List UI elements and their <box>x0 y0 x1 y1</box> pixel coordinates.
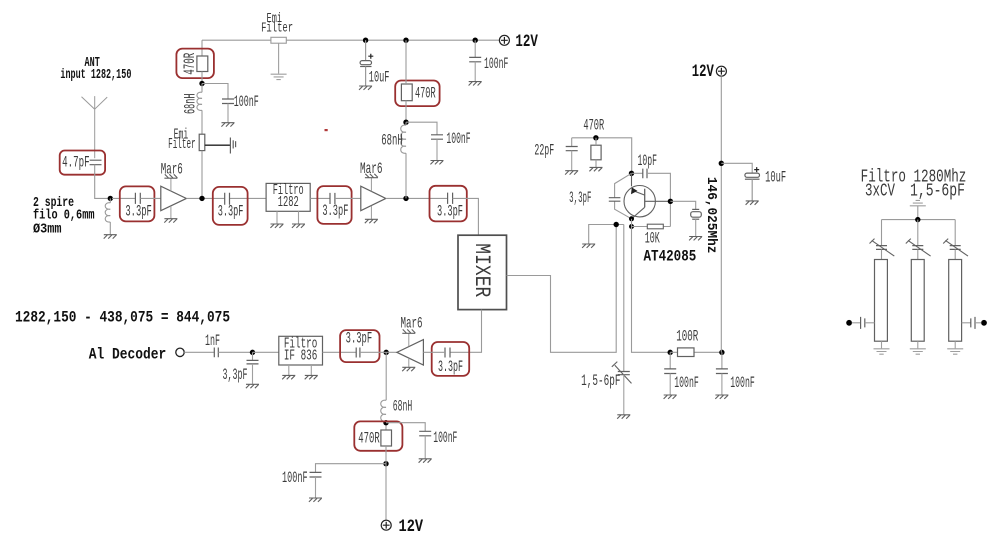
resistor 10K <box>632 224 671 247</box>
svg-text:1,5-6pF: 1,5-6pF <box>910 181 965 201</box>
resistor 100R <box>670 328 722 357</box>
wire: emitter dots link <box>631 219 633 227</box>
svg-text:3xCV: 3xCV <box>865 181 895 201</box>
svg-text:12V: 12V <box>399 517 424 537</box>
capacitor 3,3pF (decoder shunt) <box>247 352 259 384</box>
wire: 470R stems <box>595 138 597 167</box>
svg-text:470R: 470R <box>181 53 199 75</box>
op-amp Mar6 (stage1 MMIC) <box>161 161 187 219</box>
wire: collector to resonator <box>670 201 695 209</box>
ground below 100nF (left column) <box>221 123 234 127</box>
inductor 68nH (decoder bias) <box>381 352 386 430</box>
ground below 3,3pF (decoder) <box>246 384 259 388</box>
svg-text:1282,150 - 438,075 = 844,075: 1282,150 - 438,075 = 844,075 <box>15 308 230 326</box>
node: junction Mar6 decoder / 68nH bias <box>384 350 389 355</box>
wire: Filtro 1282 to 3.3pF <box>310 197 330 199</box>
wire: Filtro IF 836 to 3.3pF <box>323 351 357 353</box>
ground below 100nF (decoder bias upper) <box>419 459 432 463</box>
wire: oscillator top bias rail <box>572 138 632 174</box>
wire: Emi Filter to ground <box>278 43 280 73</box>
node: jumper junction <box>614 222 619 227</box>
op-amp Mar6 (stage2 MMIC) <box>360 160 386 219</box>
svg-text:100R: 100R <box>676 328 698 346</box>
node: antenna input junction <box>108 196 113 201</box>
power terminal 12V (right) <box>716 66 726 76</box>
ground above Mar6 stage2 <box>365 174 378 178</box>
ground below 100nF (decoder bias lower) <box>309 498 322 502</box>
ground below Filtro 1282 (right) <box>292 224 305 228</box>
capacitor 3.3pF (red box, after Mar6 stage2) <box>430 186 467 222</box>
filter Filtro 1282 <box>266 183 310 211</box>
ground below resonator 2 <box>910 349 926 354</box>
node: oscillator bias junction <box>593 135 598 140</box>
node: junction 470R/68nH/100nF (middle) <box>403 120 408 125</box>
svg-text:3,3pF: 3,3pF <box>569 189 591 207</box>
trimmer CV1 (left) <box>870 220 895 260</box>
svg-text:Al Decoder: Al Decoder <box>89 345 167 363</box>
node: rail junction at 100nF <box>473 38 478 43</box>
svg-text:1282: 1282 <box>278 195 299 211</box>
wire: +12V top rail <box>202 39 499 41</box>
node: decoder line junction <box>250 350 255 355</box>
capacitor 100nF (decoder bias upper) <box>386 423 431 459</box>
capacitor 1nF <box>184 348 252 358</box>
ground below Filtro 1282 (left) <box>270 224 283 228</box>
svg-text:100nF: 100nF <box>484 55 508 73</box>
capacitor 100nF (top right decoupling) <box>469 40 481 81</box>
wire: node to 3.3pF <box>112 197 135 199</box>
resistor 470R (left, in red box) <box>176 49 214 79</box>
stray red mark <box>325 129 328 131</box>
capacitor 3.3pF (red box, before Mar6 decoder) <box>340 330 379 362</box>
svg-text:AT42085: AT42085 <box>644 248 697 266</box>
wire: antenna cap to input node <box>95 165 108 199</box>
capacitor 10uF (electrolytic, top rail) <box>360 40 373 85</box>
wire: rail to 470R <box>405 40 407 84</box>
wire: 3.3pF to node to Mar6 apex <box>360 351 397 353</box>
svg-text:Filter: Filter <box>261 21 293 37</box>
resonator 3 (right) <box>949 260 962 342</box>
svg-text:1,5-6pF: 1,5-6pF <box>581 372 620 390</box>
Emi Filter (top, series in 12V rail) <box>261 11 293 43</box>
svg-text:1nF: 1nF <box>205 332 220 350</box>
power terminal 12V (bottom) <box>381 520 391 530</box>
crystal resonator 146,025Mhz <box>691 209 702 236</box>
svg-text:100nF: 100nF <box>674 374 699 392</box>
resistor 470R (red box, decoder bias) <box>354 421 402 450</box>
wire: 3.3pF to MIXER input <box>453 198 479 235</box>
svg-text:12V: 12V <box>692 62 714 82</box>
node: filter bus junction <box>915 217 920 222</box>
svg-text:12V: 12V <box>515 32 538 52</box>
wire: node down to 12V terminal <box>385 464 387 521</box>
svg-text:IF 836: IF 836 <box>284 348 318 364</box>
svg-text:MIXER: MIXER <box>469 243 494 297</box>
node: rail junction at 10uF <box>363 38 368 43</box>
wire: Filtro IF 836 ground stems <box>289 365 312 375</box>
svg-text:100nF: 100nF <box>234 93 259 111</box>
capacitor coupling (filter right) <box>962 317 982 329</box>
power terminal +12V (top) <box>499 35 509 45</box>
wire: MIXER RF out to oscillator node <box>507 225 617 353</box>
wire: 3.3pF to Mar6 <box>140 197 161 199</box>
svg-text:3.3pF: 3.3pF <box>218 203 244 221</box>
svg-text:10uF: 10uF <box>765 168 786 186</box>
node: emitter junction lower <box>629 224 634 229</box>
inductor 68nH (middle) <box>401 122 406 198</box>
wire: 470R to node <box>405 101 407 123</box>
ground (earth) below Emi Filter <box>271 74 287 79</box>
ground above Mar6 stage1 <box>164 174 177 178</box>
svg-text:470R: 470R <box>358 430 380 448</box>
capacitor 22pF <box>566 138 578 171</box>
feed-through capacitor at Emi Filter <box>205 138 236 154</box>
transistor Q1 AT42085 <box>624 173 670 219</box>
node: junction Mar6 out / bias column <box>199 196 204 201</box>
wire: base-emitter feedback path (hexagon left) <box>615 173 632 219</box>
trimmer CV3 (right) <box>943 220 968 260</box>
ground below Mar6 decoder <box>402 367 415 371</box>
wire: collector column <box>669 199 671 227</box>
ground below 2 spire coil <box>104 235 117 239</box>
ground above Mar6 decoder <box>402 329 415 333</box>
ground below Filtro IF 836 (left) <box>282 375 295 379</box>
svg-text:68nH: 68nH <box>393 397 413 415</box>
ground below resonator 1 <box>874 349 890 354</box>
node: rail junction at 470R <box>403 38 408 43</box>
wire: 470R to node <box>385 446 387 464</box>
svg-text:68nH: 68nH <box>181 94 199 115</box>
inductor 68nH (left column) <box>197 84 202 135</box>
wire: 202 column from rail to 470R <box>201 40 203 56</box>
svg-text:input 1282,150: input 1282,150 <box>60 67 131 83</box>
ground below resonator <box>689 237 702 241</box>
wire: 12V right column <box>720 76 722 352</box>
node: transistor base junction <box>629 171 634 176</box>
wire: emitter ground jumper <box>589 225 624 244</box>
trimmer CV2 (middle) <box>906 220 931 260</box>
wire: filter ground stem and bus <box>882 206 956 220</box>
svg-text:100nF: 100nF <box>446 130 470 148</box>
wire: Mar6 stage2 out to 3.3pF <box>386 197 448 199</box>
ground below 100nF (right of pair) <box>715 395 728 399</box>
wire: Mar6 decoder to 3.3pF <box>423 351 445 353</box>
capacitor coupling (filter left) <box>852 317 875 329</box>
ground below Mar6 stage2 <box>365 219 378 223</box>
wire: resonator 3 to ground <box>954 341 956 348</box>
ground below 100nF (left of pair) <box>664 395 677 399</box>
wire: 470R to node <box>201 72 203 84</box>
node: junction Mar6 stage2 out / 68nH column <box>403 196 408 201</box>
capacitor 100nF (left of 100R pair) <box>664 352 676 394</box>
node: junction 68nH / 470R / 100nF <box>383 420 388 425</box>
node: junction 470R bottom <box>383 461 388 466</box>
capacitor 3.3pF (red box, after Mar6 stage1) <box>213 187 248 225</box>
svg-text:10pF: 10pF <box>637 152 657 170</box>
capacitor 3.3pF (red box, stage1 input) <box>120 186 155 221</box>
svg-text:100nF: 100nF <box>433 429 457 447</box>
svg-text:Ø3mm: Ø3mm <box>33 222 62 238</box>
svg-text:3.3pF: 3.3pF <box>322 202 348 220</box>
ground above filter bus <box>910 200 926 205</box>
ground below Mar6 stage1 <box>164 219 177 223</box>
svg-text:470R: 470R <box>583 117 604 135</box>
capacitor 100nF (middle bypass) <box>406 122 443 160</box>
svg-text:22pF: 22pF <box>534 142 554 160</box>
terminal: filter input (left) <box>846 320 852 326</box>
resonator 2 (middle) <box>911 260 924 342</box>
filter Filtro IF 836 <box>279 336 323 365</box>
svg-text:3.3pF: 3.3pF <box>437 202 463 220</box>
svg-text:3.3pF: 3.3pF <box>346 330 373 348</box>
node: collector junction <box>668 199 673 204</box>
node: emitter junction upper <box>629 216 634 221</box>
capacitor 4.7pF (red box, antenna series) <box>60 151 105 175</box>
svg-text:100nF: 100nF <box>730 374 755 392</box>
svg-text:Mar6: Mar6 <box>161 161 183 179</box>
inductor 2 spire (to ground) <box>105 198 110 234</box>
ground below 100nF <box>469 82 482 86</box>
capacitor 100nF (decoder bias lower) <box>310 464 387 498</box>
ground below 470R (oscillator) <box>589 167 602 171</box>
terminal: filter output (right) <box>981 320 987 326</box>
svg-text:Filter: Filter <box>168 137 196 153</box>
capacitor 3,3pF (feedback, in hexagon edge) <box>609 198 621 202</box>
ground below Filtro IF 836 (right) <box>305 375 318 379</box>
capacitor 100nF (left column bypass) <box>202 84 234 123</box>
wire: node to Filtro IF 836 <box>253 351 279 353</box>
terminal: decoder output <box>176 348 184 356</box>
wire: resonator 1 to ground <box>881 341 883 348</box>
resistor 470R (red box, top middle) <box>395 81 439 107</box>
svg-text:470R: 470R <box>415 84 436 102</box>
node: 10uF branch junction <box>719 161 724 166</box>
wire: MIXER IF out (bottom) <box>450 310 482 353</box>
capacitor 100nF (right of 100R pair) <box>716 352 728 394</box>
svg-text:3.3pF: 3.3pF <box>125 202 152 220</box>
ground below resonator 3 <box>947 349 963 354</box>
node: 100R left junction <box>668 350 673 355</box>
svg-text:68nH: 68nH <box>381 132 403 150</box>
capacitor 10pF (feedback) <box>632 169 671 199</box>
wire: resonator 2 to ground <box>917 341 919 348</box>
svg-text:146,025Mhz: 146,025Mhz <box>703 177 719 254</box>
svg-text:100nF: 100nF <box>282 469 308 487</box>
node: 100R right junction <box>719 350 724 355</box>
svg-text:10K: 10K <box>645 229 660 247</box>
wire: emitter down to 100R line <box>632 227 671 353</box>
node: junction 470R/68nH/100nF <box>199 81 204 86</box>
resistor 470R (oscillator) <box>583 117 604 160</box>
wire: Filtro 1282 ground stems <box>277 211 299 223</box>
svg-text:4.7pF: 4.7pF <box>62 153 90 171</box>
ground below 10uF <box>359 86 372 90</box>
capacitor 3.3pF (red box, before Mar6 stage2) <box>317 186 351 224</box>
svg-text:3,3pF: 3,3pF <box>223 366 248 384</box>
svg-text:3.3pF: 3.3pF <box>438 358 463 376</box>
wire: Mar6 out to node / Filtro 1282 <box>186 197 266 199</box>
ground below trimmer <box>617 415 630 419</box>
capacitor 3.3pF (red box, after Mar6 decoder) <box>432 342 470 376</box>
svg-text:10uF: 10uF <box>369 68 390 86</box>
wire: 3.3pF to Mar6 stage2 <box>335 197 361 199</box>
op-amp Mar6 (decoder MMIC, pointing left) <box>397 315 424 367</box>
Emi Filter (vertical, left column) <box>168 128 205 154</box>
ground below 22pF <box>565 171 578 175</box>
resonator 1 (left) <box>875 260 888 342</box>
ground at jumper <box>582 244 595 248</box>
capacitor 10uF (right, electrolytic) <box>721 163 759 200</box>
ground below 10uF (right) <box>746 201 759 205</box>
antenna ANT <box>82 96 108 158</box>
mixer MIXER block <box>458 235 507 309</box>
ground below 100nF (middle) <box>430 161 443 165</box>
wire: Emi Filter down to main line <box>201 151 203 199</box>
capacitor 1,5-6pF (trimmer to ground) <box>612 225 632 415</box>
